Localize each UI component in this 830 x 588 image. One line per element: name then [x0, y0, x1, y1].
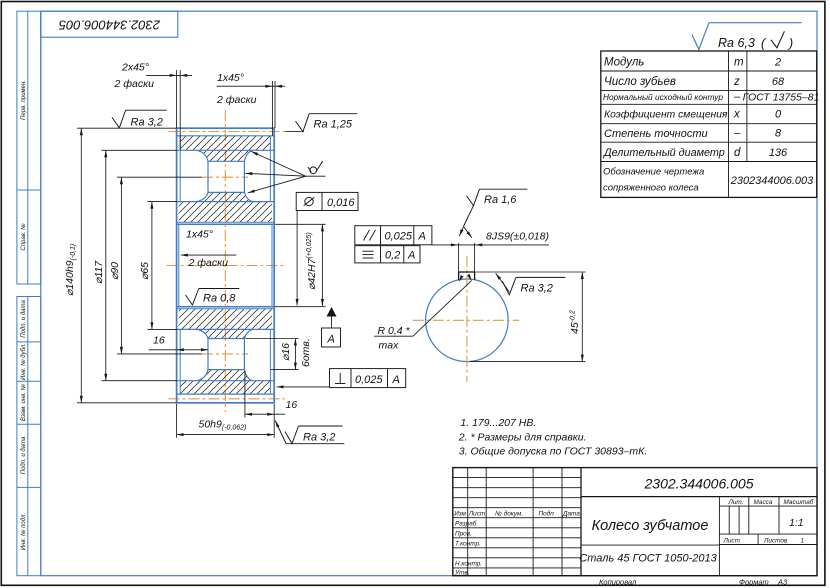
svg-text:Обозначение чертежа: Обозначение чертежа — [603, 167, 704, 178]
svg-text:z: z — [733, 76, 740, 88]
root line top — [177, 135, 275, 137]
centerline vertical (hole circle plane) — [224, 110, 226, 412]
svg-text:Лист: Лист — [468, 510, 486, 517]
arrowheads main view — [80, 74, 337, 436]
recess wall left upper — [179, 136, 181, 202]
recess wall left lower — [179, 329, 181, 394]
svg-text:Делительный диаметр: Делительный диаметр — [603, 147, 725, 159]
svg-text:Ra 3,2: Ra 3,2 — [521, 283, 553, 295]
svg-text:max: max — [379, 340, 400, 352]
svg-text:d: d — [734, 147, 741, 159]
hatch: lower web above hole — [197, 329, 253, 338]
bottom margin labels — [599, 578, 788, 587]
svg-text:Ra 1,6: Ra 1,6 — [484, 194, 517, 206]
bore circle — [426, 279, 509, 362]
bore line top — [177, 223, 275, 225]
16 left recess dimension — [149, 349, 209, 351]
16 right recess dimension — [245, 413, 285, 415]
hatch: upper web below hole — [197, 192, 253, 201]
svg-text:1: 1 — [801, 537, 805, 544]
svg-text:№ докум.: № докум. — [495, 509, 523, 517]
svg-text:Подп. и дата: Подп. и дата — [21, 300, 27, 338]
web outline upper — [197, 150, 253, 201]
svg-text:Изм: Изм — [454, 510, 466, 517]
dia90 dimension line — [120, 177, 122, 354]
cylindricity leader — [296, 211, 298, 306]
general roughness Ra 6,3 (v) — [692, 23, 802, 51]
svg-text:2302.344006.005: 2302.344006.005 — [644, 476, 754, 492]
dia140 dimension line — [80, 128, 82, 403]
hatch: hub upper band — [179, 202, 272, 223]
roughness Ra 3,2 keyway flat — [502, 277, 565, 294]
svg-text:1. 179...207 НВ.: 1. 179...207 НВ. — [460, 417, 536, 429]
svg-text:Ra 3,2: Ra 3,2 — [303, 432, 335, 444]
root line bottom — [177, 393, 275, 395]
dia16 holes dimension — [294, 339, 296, 370]
hatch: upper rim band — [180, 136, 270, 151]
svg-text:2x45°: 2x45° — [121, 62, 149, 74]
svg-text:Инв. № дубл.: Инв. № дубл. — [20, 343, 27, 380]
50h9 width dimension — [177, 434, 275, 436]
1x45 bore chamfer leader — [181, 254, 237, 256]
roughness Ra 1,6 keyway sides — [464, 189, 528, 226]
hub top line — [177, 201, 275, 203]
gear parameter table — [601, 51, 817, 197]
hatch: lower web below hole — [197, 370, 253, 381]
bore chamfer edge bottom — [177, 308, 275, 310]
svg-text:Ra 0,8: Ra 0,8 — [203, 293, 236, 305]
svg-text:136: 136 — [769, 147, 788, 159]
svg-text:Н.контр.: Н.контр. — [455, 561, 482, 568]
bore line bottom — [177, 306, 275, 308]
svg-text:Формат: Формат — [739, 578, 769, 587]
pitch line bottom — [169, 398, 286, 400]
svg-text:0,025: 0,025 — [385, 231, 413, 243]
svg-text:Коэффициент смещения: Коэффициент смещения — [604, 109, 728, 121]
dimension texts main view — [64, 62, 318, 432]
left margin graph boxes group 2 — [17, 297, 41, 576]
svg-text:6отв.: 6отв. — [300, 338, 312, 367]
svg-text:16: 16 — [153, 335, 165, 347]
top-left designation stamp (rotated 180) — [41, 11, 178, 37]
hatch: hub lower band — [179, 309, 272, 330]
bore chamfer edge top — [177, 221, 275, 223]
svg-text:Лит.: Лит. — [728, 499, 744, 506]
svg-text:ГОСТ 13755–81: ГОСТ 13755–81 — [743, 92, 820, 104]
1x45 chamfer dimension top — [217, 85, 286, 87]
svg-text:0,2: 0,2 — [385, 250, 400, 262]
svg-text:Подп. и дата: Подп. и дата — [21, 436, 27, 474]
dia117 dimension line — [105, 150, 107, 380]
circle centerlines — [413, 319, 519, 321]
svg-text:⌀117: ⌀117 — [93, 260, 105, 284]
svg-text:Масштаб: Масштаб — [784, 498, 814, 506]
left margin graph boxes group 1 — [17, 11, 41, 284]
svg-text:0: 0 — [775, 109, 782, 121]
svg-text:2 фаски: 2 фаски — [114, 78, 155, 90]
svg-text:Разраб.: Разраб. — [455, 519, 478, 527]
datum A box — [322, 328, 341, 347]
hatch: upper web above hole — [197, 150, 253, 161]
svg-text:3. Общие допуска по ГОСТ 30893: 3. Общие допуска по ГОСТ 30893–тК. — [459, 446, 647, 458]
keyway extension lines and 8JS9 dimension — [374, 227, 586, 362]
svg-text:Ra 6,3: Ra 6,3 — [718, 36, 755, 50]
datum A stem — [331, 316, 333, 328]
svg-text:Дата: Дата — [562, 510, 580, 517]
centerline gear axis — [167, 265, 285, 267]
svg-text:A: A — [327, 334, 335, 346]
svg-text:Листов: Листов — [763, 537, 788, 544]
pitch line top — [169, 131, 304, 133]
svg-text:68: 68 — [772, 76, 785, 88]
svg-text:Взам. инв. №: Взам. инв. № — [20, 383, 27, 421]
svg-text:Степень точности: Степень точности — [604, 128, 708, 140]
svg-text:⌀90: ⌀90 — [109, 262, 121, 280]
svg-text:–: – — [733, 91, 741, 103]
surface equal symbol (check with circle) — [308, 161, 323, 174]
svg-text:Число зубьев: Число зубьев — [604, 76, 676, 88]
svg-text:Модуль: Модуль — [604, 57, 644, 69]
left margin rotated labels — [20, 80, 27, 550]
svg-text:Нормальный исходный контур: Нормальный исходный контур — [603, 92, 723, 102]
dia65 dimension line — [151, 202, 153, 330]
svg-text:Масса: Масса — [754, 499, 773, 506]
roughness Ra 0,8 bore — [186, 289, 240, 306]
svg-text:–: – — [733, 128, 741, 140]
svg-text:А3: А3 — [777, 578, 788, 587]
svg-text:Перв. примен.: Перв. примен. — [21, 80, 27, 120]
rim inner line bottom — [177, 380, 275, 382]
parallelism frame — [355, 226, 432, 245]
svg-text:16: 16 — [286, 399, 298, 411]
svg-text:2302.344006.005: 2302.344006.005 — [58, 18, 161, 33]
svg-text:2 фаски: 2 фаски — [216, 94, 257, 106]
svg-text:A: A — [392, 374, 400, 386]
roughness Ra 1,25 on pitch line — [296, 114, 358, 132]
gear outer profile — [177, 128, 275, 403]
svg-text:Сталь 45 ГОСТ 1050-2013: Сталь 45 ГОСТ 1050-2013 — [579, 553, 717, 565]
web outline lower — [197, 329, 253, 380]
svg-text:Справ. №: Справ. № — [20, 223, 27, 251]
hole centerline lower — [202, 353, 248, 355]
hole centerline upper — [202, 176, 248, 178]
keyway slot outline — [459, 272, 475, 280]
svg-text:Подп: Подп — [539, 509, 555, 517]
svg-text:R 0,4 *: R 0,4 * — [378, 325, 411, 337]
svg-text:1x45°: 1x45° — [186, 229, 213, 241]
svg-text:Пров.: Пров. — [455, 530, 472, 537]
perpendicularity frame — [330, 369, 406, 388]
svg-text:Ra 1,25: Ra 1,25 — [314, 119, 353, 131]
svg-text:A: A — [418, 231, 426, 243]
svg-text:⌀65: ⌀65 — [139, 262, 151, 280]
rim inner line top — [177, 149, 275, 151]
svg-text:2 фаски: 2 фаски — [188, 257, 229, 269]
roughness Ra 3,2 bottom with leader — [275, 421, 344, 444]
svg-text:⌀16: ⌀16 — [280, 343, 292, 361]
svg-text:1:1: 1:1 — [789, 517, 804, 529]
svg-text:8JS9(±0,018): 8JS9(±0,018) — [486, 231, 549, 243]
svg-text:Ra 3,2: Ra 3,2 — [131, 117, 163, 129]
svg-text:Колесо зубчатое: Колесо зубчатое — [592, 518, 709, 534]
svg-text:8: 8 — [775, 128, 782, 140]
hub bottom line — [177, 328, 275, 330]
svg-text:A: A — [407, 250, 415, 262]
svg-text:0,016: 0,016 — [327, 197, 355, 209]
bore chamfer verticals — [178, 224, 180, 306]
surface symbol leaders (3 arrows) — [251, 151, 306, 176]
cylindricity tolerance frame 0,016 — [296, 192, 358, 210]
svg-text:0,025: 0,025 — [355, 374, 383, 386]
svg-text:2. * Размеры для справки.: 2. * Размеры для справки. — [458, 431, 587, 443]
pitch line black tail for Ra1,25 — [285, 131, 304, 133]
svg-text:сопряженного колеса: сопряженного колеса — [603, 183, 699, 194]
symmetry frame — [355, 246, 420, 263]
svg-text:2: 2 — [774, 57, 781, 69]
recess wall right upper — [269, 136, 271, 202]
svg-text:2302344006.003: 2302344006.003 — [730, 175, 814, 187]
technical notes — [458, 417, 647, 458]
roughness Ra 3,2 top-left — [112, 110, 167, 128]
svg-text:Инв. № подл.: Инв. № подл. — [20, 513, 27, 550]
dia42H7 dimension — [321, 224, 323, 306]
svg-text:Утв.: Утв. — [454, 570, 470, 577]
svg-text:Копировал: Копировал — [599, 578, 637, 587]
recess wall right lower — [269, 329, 271, 394]
svg-text:m: m — [734, 57, 744, 69]
perpendicularity leader — [277, 386, 330, 388]
svg-text:1x45°: 1x45° — [217, 72, 244, 84]
hatch: lower rim band — [180, 381, 270, 394]
svg-text:Лист: Лист — [723, 537, 741, 544]
2x45 chamfer dimension — [146, 74, 192, 76]
svg-text:Т.контр.: Т.контр. — [455, 540, 481, 547]
